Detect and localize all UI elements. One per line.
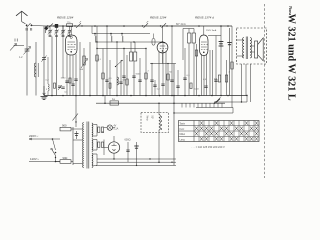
label model W 321 und W 321 L <box>285 14 296 101</box>
resistor R20 on V1 pin <box>69 78 71 83</box>
coil L1 antenna coil <box>34 42 38 96</box>
mains switch S7 <box>73 96 79 128</box>
wire vertical x92 <box>91 26 93 34</box>
wire mains out of box <box>158 130 160 163</box>
series coil L8 in bus <box>67 22 73 27</box>
wires V1 pins to ground bus <box>67 54 76 95</box>
label 0,1 at C4 <box>109 78 113 80</box>
coil L5 drop <box>122 34 123 43</box>
resistor R23 <box>54 83 56 88</box>
wire feed x174 <box>173 64 175 166</box>
label 300 <box>80 69 84 71</box>
capacitor C25 <box>161 42 164 96</box>
wire vertical x90 <box>89 42 91 96</box>
resistor R3 <box>126 55 128 96</box>
coil L4 drop <box>111 34 112 43</box>
paper background <box>0 0 300 181</box>
coil L3 drop <box>95 34 96 43</box>
voltage selector switch S5 <box>51 138 56 162</box>
label 900 <box>62 123 67 127</box>
label 0,04 <box>195 89 200 91</box>
connector blob at bus corner <box>44 26 48 33</box>
capacitor C8 <box>138 58 141 96</box>
wire heater line y165.4 <box>96 165 176 166</box>
switch S9 output <box>215 98 220 103</box>
resistor R8 <box>225 60 227 96</box>
wire HF line y42 <box>95 41 163 42</box>
resistor R12 heater <box>97 125 100 137</box>
capacitor C27 <box>204 86 207 88</box>
svg-text:1000: 1000 <box>61 78 67 80</box>
wire ground bus <box>44 95 247 97</box>
capacitor C13 smoothing <box>126 142 129 162</box>
wires into speaker box <box>237 40 245 56</box>
power transformer T3 primary winding <box>83 123 84 168</box>
page margin dashed line <box>264 4 266 178</box>
band switch tie wires <box>182 103 222 107</box>
label 1,4 near selector <box>50 149 54 151</box>
wire heater line y162 <box>97 162 176 163</box>
resistor R9 <box>231 26 233 96</box>
label 1000 <box>61 78 67 80</box>
svg-text:110V∼: 110V∼ <box>30 157 40 161</box>
wire vertical x57 <box>56 37 58 96</box>
rectifier tube V4 envelope <box>108 142 119 153</box>
power transformer T3 secondary HT winding <box>92 123 93 137</box>
capacitor C24 <box>153 80 156 96</box>
coil L2 HF choke <box>117 42 118 96</box>
wire vertical x52 <box>51 37 53 96</box>
wire heater line y159 <box>97 158 176 159</box>
wire top link y35.5 <box>208 35 221 37</box>
band switch table row labels <box>180 123 186 142</box>
label 0,5 <box>122 80 126 82</box>
wire link y107.5 <box>196 107 233 109</box>
svg-text:Mittel: Mittel <box>180 133 186 136</box>
svg-text:RENS 1264: RENS 1264 <box>57 16 74 20</box>
output transformer T4 secondary <box>250 38 252 59</box>
switch S3b on bus <box>142 21 149 28</box>
label RENS 1374d tube V3 <box>195 16 214 20</box>
series capacitor C29 in bus <box>55 24 58 28</box>
wire screen line y63.5 <box>150 63 176 64</box>
label 2M <box>148 71 150 73</box>
svg-text:RENS 1374 d: RENS 1374 d <box>195 16 214 20</box>
wire vertical x80 <box>79 42 81 96</box>
trimmer capacitor CT2 <box>54 26 58 37</box>
wire link y113 <box>174 108 233 114</box>
band switch table contact marks <box>195 121 258 140</box>
label 220V <box>29 134 39 138</box>
power transformer T3 secondary heater winding 1 <box>92 139 93 152</box>
resistor R4 <box>145 49 147 96</box>
switch S2 wave change <box>74 21 82 28</box>
output transformer T4 core <box>246 37 247 60</box>
resistor R5 <box>183 48 186 96</box>
resistor R10 900 ohm dropping <box>60 127 73 131</box>
tube V2 RENS 1294 envelope <box>157 42 168 53</box>
power transformer T3 core <box>87 122 89 169</box>
power transformer T3 secondary heater winding 2 <box>92 153 93 168</box>
trimmer capacitor CT1 <box>48 26 52 37</box>
label 30 ohm <box>102 132 105 134</box>
switch S1 on top bus <box>47 24 55 28</box>
label 0,1 left <box>65 92 69 94</box>
label 50 <box>169 72 172 74</box>
mains transformer winding in box <box>159 115 162 131</box>
label lamp 4V 0,1A <box>114 126 119 131</box>
wire vertical x103 <box>102 49 104 96</box>
wire 220V input <box>29 138 53 140</box>
electrolytic capacitor C10 <box>219 26 224 96</box>
coil curl L6 <box>48 57 49 96</box>
label 5000 <box>136 74 142 76</box>
wires primary taps <box>73 129 82 164</box>
loudspeaker dashed enclosure <box>237 28 267 64</box>
resistor R22 <box>190 83 192 89</box>
capacitor C7 <box>132 61 135 96</box>
label Nora brand <box>288 6 293 16</box>
label fuse 1a <box>112 98 115 101</box>
dial lamp LP1 <box>104 125 115 130</box>
label 110V <box>30 157 40 161</box>
label RENS 1294 tube V2 <box>150 16 167 20</box>
capacitor C6 <box>122 49 125 96</box>
svg-text:· · · = 110 125 150 220: · · · = 110 125 150 220 240 V <box>191 145 225 149</box>
antenna coupling coil arrow <box>10 39 24 51</box>
switch S4 mid <box>115 60 123 67</box>
capacitor C21 on V1 pin <box>71 84 74 86</box>
potentiometer P1 volume <box>81 48 88 96</box>
svg-text:220V∼: 220V∼ <box>29 134 39 138</box>
electrolytic capacitor C12 reservoir <box>134 142 138 165</box>
switch S3 on bus <box>160 23 168 28</box>
tube V1 RENS 1264 envelope <box>66 35 78 55</box>
svg-text:90Ω: 90Ω <box>63 156 68 160</box>
capacitor C9 <box>214 36 217 96</box>
svg-text:0,1A: 0,1A <box>114 127 119 130</box>
capacitor C26 <box>176 70 179 96</box>
label 90 ohm <box>63 156 68 160</box>
svg-text:RENS 1294: RENS 1294 <box>150 16 167 20</box>
label antenna coil value <box>19 56 23 59</box>
resistor R2 <box>96 26 98 96</box>
junction dots on ground bus <box>51 95 229 97</box>
label 3 <box>46 89 48 91</box>
electrolytic capacitor C14 <box>227 28 231 96</box>
label 250V 9mA <box>206 29 217 32</box>
wire coupling line y33.5 <box>92 33 150 35</box>
svg-text:5000: 5000 <box>136 74 142 76</box>
wire vertical x152 <box>150 64 153 96</box>
switch S8 slash on mains run <box>214 99 220 104</box>
wire output link y102 <box>214 95 248 103</box>
wire bus drop x105 <box>104 96 106 104</box>
label 0,1 near V3 <box>214 78 218 81</box>
trimmer capacitor CT3 <box>61 26 65 37</box>
label 0,1 right <box>187 75 191 77</box>
svg-text:600Ω: 600Ω <box>125 139 131 142</box>
tube V3 RENS 1374d envelope <box>200 35 209 56</box>
capacitor C23 <box>61 37 64 89</box>
label 4 <box>229 72 231 74</box>
wire grid cap of V2 <box>162 26 164 42</box>
fuse F1 <box>110 101 119 105</box>
ground symbol <box>41 86 48 100</box>
IF transformer T1 windings <box>130 42 137 61</box>
wire vertical x183 <box>182 29 184 61</box>
wire x232 drop <box>231 96 233 108</box>
wire grid cap of V1 <box>63 26 71 37</box>
svg-text:Netz: Netz <box>146 116 149 122</box>
IF transformer T2 windings <box>183 29 196 96</box>
electrolytic capacitor C11 across mains <box>75 131 79 139</box>
wire vertical x168 <box>167 64 169 96</box>
table caption <box>191 145 225 149</box>
wires secondary taps <box>93 125 97 166</box>
antenna input terminals <box>26 23 47 30</box>
capacitor C20 on V1 pin <box>65 81 68 83</box>
wire anode top cap V3 <box>203 26 205 35</box>
wires V2 pins down <box>159 52 166 96</box>
wire speaker primary down x241 <box>241 64 243 102</box>
svg-text:Lang: Lang <box>180 139 186 141</box>
svg-text:900: 900 <box>62 123 67 127</box>
capacitor C28 <box>58 86 61 87</box>
svg-text:Taste: Taste <box>180 123 186 126</box>
trimmer capacitor C2 <box>41 26 46 96</box>
label RENS 1264 tube V1 <box>57 16 74 20</box>
output transformer T4 primary <box>242 38 244 59</box>
wires rectifier connections <box>104 136 114 159</box>
antenna A1 <box>16 11 28 24</box>
resistor R14 heater bank <box>101 127 103 147</box>
resistor R7 <box>218 75 220 82</box>
capacitor C5 <box>119 60 122 96</box>
variable capacitor C1 tuning gang <box>24 26 31 96</box>
label anode current V2 <box>176 23 186 26</box>
label 0,1 at C5 <box>98 59 102 61</box>
wire 110V input <box>29 161 60 163</box>
trimmer capacitor CT4 <box>67 26 71 37</box>
label Netz 50Hz <box>146 116 153 122</box>
svg-text:W 321 und W 321 L: W 321 und W 321 L <box>285 14 296 101</box>
resistor R21 <box>109 60 111 96</box>
wires V3 pins to bus <box>202 50 213 96</box>
coil L7 beside V2 <box>152 34 155 46</box>
wire selector to primary <box>53 127 74 165</box>
wire vertical x172 <box>170 26 173 96</box>
resistor R6 grid leak <box>195 44 197 96</box>
capacitor C4 <box>105 26 108 96</box>
mains selector dashed box <box>141 113 169 133</box>
loudspeaker LS1 <box>250 38 263 61</box>
capacitor C22 on V1 pin <box>74 79 77 81</box>
wire mains feed y103 <box>96 102 225 104</box>
svg-text:250V 9mA: 250V 9mA <box>206 29 217 32</box>
label 0,2 <box>46 80 50 82</box>
label 600 ohm field <box>125 139 131 142</box>
resistor R11 dropping lower <box>56 160 74 164</box>
wire AVC line y48.5 <box>96 48 146 49</box>
svg-text:4V: 4V <box>114 126 117 128</box>
band switch table frame <box>179 121 260 142</box>
wire mains into box <box>158 103 160 115</box>
label 0,5 right <box>203 79 207 81</box>
switch S6 slash <box>58 85 62 90</box>
junction dots on top bus <box>62 25 229 27</box>
wire field coil down x246 <box>245 64 247 96</box>
resistor R13 heater hum <box>97 140 100 166</box>
label 0,3 <box>157 89 161 91</box>
wire speaker secondary down x250 <box>250 64 252 102</box>
wire top HT bus <box>47 25 232 27</box>
svg-text:60° 4mA: 60° 4mA <box>176 23 186 26</box>
